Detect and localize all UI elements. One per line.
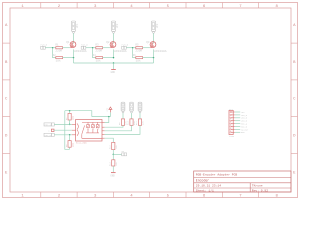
frame column numbers top [21, 5, 278, 9]
svg-text:1X08: 1X08 [229, 135, 235, 138]
svg-text:10k: 10k [136, 58, 141, 62]
node junction ch3 [132, 47, 134, 49]
connector pad P5 [44, 133, 54, 137]
svg-text:GND: GND [241, 131, 245, 134]
jumper JP1 [71, 21, 79, 33]
node label LED_B [241, 120, 248, 123]
jumper JP5 [130, 102, 134, 113]
pad TP2 [48, 129, 54, 132]
resistor R9 [118, 119, 127, 125]
svg-text:R13: R13 [109, 162, 112, 166]
svg-text:R5: R5 [135, 44, 139, 47]
node label SW [241, 128, 249, 131]
svg-text:E: E [5, 171, 8, 175]
svg-text:6: 6 [203, 195, 206, 199]
wire R6 to Q3 source node [143, 57, 154, 59]
svg-text:Rev: 0.92: Rev: 0.92 [252, 190, 268, 193]
title block box [194, 171, 291, 192]
wire +5V stem [109, 112, 111, 116]
wire P3 to R5 [126, 47, 136, 49]
frame column numbers bottom [21, 195, 278, 199]
svg-text:R4: R4 [93, 54, 97, 57]
wire JP2 to Q2 drain [113, 33, 115, 43]
frame column ticks top [41, 3, 259, 9]
connector pad P3 [122, 43, 129, 49]
svg-text:C: C [293, 98, 296, 102]
wire P5 to encoder pin B [54, 134, 72, 136]
title block text: author [252, 185, 263, 188]
wire R8 top stub [69, 135, 71, 141]
node label +5V [241, 111, 245, 114]
wire node to R13 [112, 154, 114, 159]
svg-text:R11: R11 [135, 121, 138, 125]
node R7 bottom junction [69, 124, 71, 126]
wire JP7 pin 6 stub [235, 126, 240, 128]
frame column ticks bottom [41, 192, 259, 198]
node R7 top junction [69, 110, 71, 112]
node junction ch1 [52, 47, 54, 49]
svg-text:R7: R7 [65, 117, 68, 120]
ground GND2 [110, 173, 115, 178]
wire R5 to Q3 gate [143, 47, 150, 49]
title block text: sheet name [196, 178, 209, 182]
node Q3 source junction [153, 57, 155, 59]
transistor Q2 AO3400A [106, 41, 127, 53]
svg-text:R10: R10 [127, 121, 130, 125]
wire junction down to R2 [53, 48, 56, 58]
node label GND [241, 131, 245, 134]
wire source bus ch3 down [153, 58, 155, 63]
svg-text:C: C [5, 98, 8, 102]
svg-text:A: A [293, 24, 296, 28]
svg-text:220R: 220R [95, 49, 102, 52]
svg-text:JP3: JP3 [156, 23, 159, 28]
frame row ticks left [3, 43, 11, 153]
wire switch pin to R12 [105, 138, 114, 142]
wire ground stem [113, 63, 115, 69]
transistor Q3 AO3400A [146, 41, 167, 53]
svg-text:R2: R2 [53, 54, 57, 57]
svg-text:RGB-Encoder Adapter PCB: RGB-Encoder Adapter PCB [196, 173, 238, 177]
resistor R10 [127, 119, 136, 125]
svg-text:Q3: Q3 [146, 41, 150, 44]
frame row ticks right [291, 43, 298, 153]
svg-text:GND: GND [111, 71, 116, 74]
wire JP7 pin 1 stub [235, 111, 240, 113]
resistor R4 10k [93, 54, 103, 63]
svg-text:Sheet: 1/1: Sheet: 1/1 [196, 189, 214, 193]
svg-text:10k: 10k [56, 58, 61, 62]
svg-text:10k: 10k [71, 142, 74, 147]
svg-text:R8: R8 [65, 144, 68, 147]
svg-text:SW: SW [121, 150, 124, 153]
svg-text:10k: 10k [115, 162, 118, 166]
frame inner border [10, 8, 291, 192]
title block text: project title [196, 173, 238, 177]
svg-text:4: 4 [130, 195, 133, 199]
wire R12 to node [112, 150, 114, 155]
svg-text:7: 7 [239, 195, 242, 199]
connector pad P2 [81, 43, 88, 49]
svg-text:R9: R9 [118, 122, 121, 125]
svg-text:3: 3 [94, 195, 97, 199]
wire R8 bottom stub [69, 147, 71, 149]
wire node to TP1 [113, 153, 121, 155]
svg-text:8: 8 [275, 195, 278, 199]
wire JP6 to R11 [139, 113, 141, 119]
wire R2 to Q1 source node [63, 57, 74, 59]
svg-text:Q2: Q2 [106, 41, 110, 44]
svg-text:GND: GND [110, 174, 115, 177]
wire R9 to encoder pin [105, 125, 123, 127]
resistor R6 10k [133, 54, 143, 63]
svg-text:ENC_B: ENC_B [45, 134, 52, 137]
svg-text:R12: R12 [109, 145, 112, 149]
svg-text:E: E [293, 171, 296, 175]
wire R7 bottom stub [69, 120, 71, 124]
connector JP7 pin 6 [230, 126, 235, 127]
wire JP7 pin 5 stub [235, 123, 240, 125]
pad TP1 [121, 150, 126, 156]
svg-text:Encoder: Encoder [196, 178, 209, 182]
svg-text:C: C [48, 130, 50, 133]
wire R11 to encoder pin [105, 125, 140, 134]
resistor R2 10k [53, 54, 63, 63]
svg-text:220R: 220R [135, 49, 142, 52]
resistor R11 [135, 119, 144, 125]
wire Q1 source down [73, 49, 75, 57]
connector JP7 pin 1 [230, 111, 235, 112]
connector JP7 pin 7 [230, 129, 235, 130]
jumper JP6 [138, 102, 142, 113]
wire VCC left drop [65, 111, 70, 150]
wire JP4 to R9 [122, 113, 124, 119]
svg-text:PWM_B: PWM_B [122, 43, 129, 46]
wire JP7 pin 8 stub [235, 131, 240, 133]
jumper JP4 [121, 102, 125, 113]
svg-text:2: 2 [58, 195, 61, 199]
svg-text:AO3400A: AO3400A [154, 50, 167, 53]
node label LED_R [241, 114, 248, 117]
svg-text:AO3400A: AO3400A [74, 50, 87, 53]
connector JP7 pin 2 [230, 114, 235, 115]
resistor R3 220R [95, 44, 102, 53]
ground GND1 [111, 70, 116, 75]
connector JP7 pin 3 [230, 117, 235, 118]
svg-text:R3: R3 [95, 44, 99, 47]
wire VCC jog up [65, 111, 92, 117]
svg-text:ENC_A: ENC_A [45, 124, 52, 127]
resistor R8 10k pull-up [65, 141, 75, 148]
svg-text:EC11-RGB: EC11-RGB [76, 142, 87, 145]
frame row letters right [293, 24, 296, 175]
wire R10 to encoder pin [105, 125, 132, 131]
wire Q3 source down [153, 49, 155, 57]
title block text: date [196, 185, 221, 188]
node label ENC_B [241, 125, 248, 128]
wire junction down to R4 [93, 48, 96, 58]
jumper JP3 [151, 21, 159, 33]
frame outer border [3, 3, 298, 198]
svg-text:B: B [293, 61, 296, 65]
wire source bus ch1 down [73, 58, 75, 63]
wire TP2 to encoder pin C [54, 129, 72, 131]
svg-text:5: 5 [167, 195, 170, 199]
wire JP7 pin 3 stub [235, 117, 240, 119]
wire R4 to Q2 source node [103, 57, 114, 59]
wire P2 to R3 [86, 47, 96, 49]
resistor R13 [109, 160, 118, 166]
frame row letters left [5, 24, 8, 175]
wire anode riser [105, 117, 109, 123]
svg-text:PWM_G: PWM_G [81, 43, 88, 46]
svg-text:PWM_R: PWM_R [41, 43, 48, 46]
resistor R5 220R [135, 44, 142, 53]
svg-text:JP2: JP2 [116, 23, 119, 28]
wire Q2 source down [113, 49, 115, 57]
svg-text:AO3400A: AO3400A [114, 50, 127, 53]
node junction ch2 [92, 47, 94, 49]
svg-text:JP1: JP1 [76, 23, 79, 28]
wire R7 top stub [69, 111, 71, 114]
node VCC junction [108, 116, 110, 118]
svg-text:220R: 220R [55, 49, 62, 52]
wire ground bus [74, 62, 154, 64]
wire junction down to R6 [133, 48, 136, 58]
wire JP5 to R10 [131, 113, 133, 119]
node label ENC_A [241, 123, 248, 126]
wire P4 to encoder pin A [54, 123, 72, 125]
wire JP7 pin 2 stub [235, 114, 240, 116]
svg-text:D: D [293, 135, 296, 139]
node R8 top junction [69, 134, 71, 136]
connector pad P4 [44, 123, 54, 127]
wire JP7 pin 7 stub [235, 128, 240, 130]
node ground bus junction [113, 62, 115, 64]
node Q1 source junction [73, 57, 75, 59]
title block text: sheet number [196, 189, 214, 193]
wire JP7 pin 4 stub [235, 120, 240, 122]
wire VCC horizontal to arrow [92, 116, 111, 118]
encoder S1 [72, 120, 105, 145]
wire JP1 to Q1 drain [73, 33, 75, 43]
svg-text:29.10.21 23:14: 29.10.21 23:14 [196, 185, 221, 188]
resistor R1 220R [55, 44, 62, 53]
svg-text:R1: R1 [55, 44, 59, 47]
wire R1 to Q1 gate [63, 47, 70, 49]
jumper JP2 [111, 21, 119, 33]
connector JP7 pin 8 [230, 132, 235, 133]
connector JP7 pin 5 [230, 123, 235, 124]
svg-text:1: 1 [21, 195, 24, 199]
resistor R12 [109, 142, 118, 149]
wire R3 to Q2 gate [103, 47, 110, 49]
svg-text:10k: 10k [71, 115, 74, 120]
svg-text:+5V: +5V [106, 107, 109, 112]
transistor Q1 AO3400A [66, 41, 87, 53]
resistor R7 10k pull-up [65, 113, 75, 120]
title block text: revision [252, 190, 268, 193]
svg-text:Q1: Q1 [66, 41, 70, 44]
wire R13 to ground [112, 166, 114, 172]
svg-text:10k: 10k [96, 58, 101, 62]
svg-text:B: B [5, 61, 8, 65]
node label LED_G [241, 117, 248, 120]
svg-text:A: A [5, 24, 8, 28]
svg-text:10k: 10k [115, 145, 118, 149]
wire JP3 to Q3 drain [153, 33, 155, 43]
connector JP7 pin 4 [230, 120, 235, 121]
svg-text:TKrune: TKrune [252, 185, 263, 188]
svg-text:R6: R6 [133, 54, 137, 57]
node Q2 source junction [113, 57, 115, 59]
connector JP7 [229, 108, 235, 138]
node switch divider junction [113, 154, 115, 156]
svg-text:D: D [5, 135, 8, 139]
connector pad P1 [41, 43, 48, 49]
wire P1 to R1 [45, 47, 56, 49]
supply +5V arrow [106, 107, 112, 112]
svg-text:47R: 47R [142, 121, 145, 125]
